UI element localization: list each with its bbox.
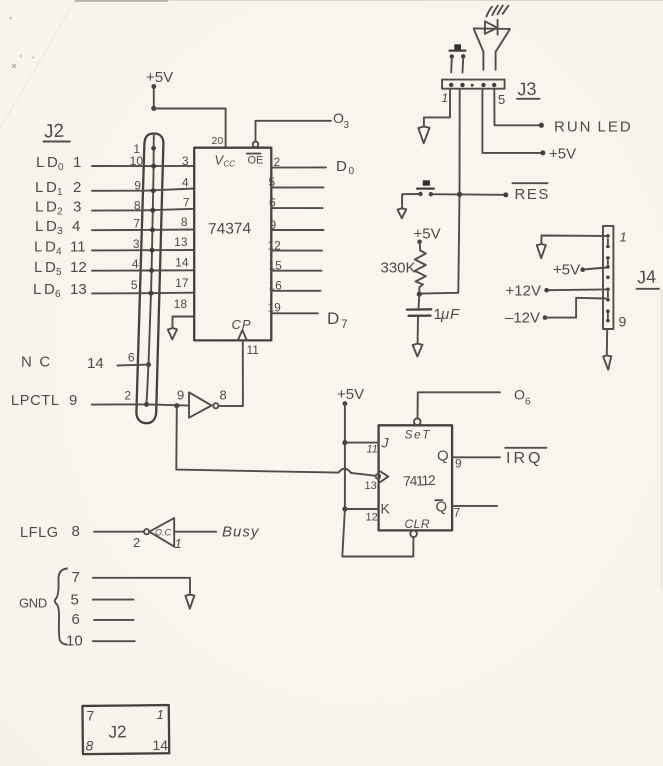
- svg-text:9: 9: [619, 314, 627, 330]
- svg-text:5: 5: [131, 278, 138, 292]
- svg-text:0: 0: [349, 166, 355, 177]
- svg-text:CC: CC: [224, 160, 236, 169]
- svg-text:14: 14: [153, 737, 169, 753]
- svg-text:9: 9: [134, 179, 141, 193]
- svg-text:NC: NC: [21, 354, 58, 371]
- svg-text:D: D: [45, 239, 56, 256]
- svg-text:J2: J2: [44, 121, 65, 143]
- svg-text:+5V: +5V: [414, 226, 441, 243]
- svg-text:10: 10: [66, 633, 83, 650]
- svg-text:3: 3: [344, 120, 350, 131]
- svg-text:Busy: Busy: [222, 524, 260, 541]
- svg-text:+5V: +5V: [549, 146, 576, 163]
- svg-text:7: 7: [72, 569, 80, 586]
- svg-text:330K: 330K: [381, 260, 416, 277]
- svg-text:8: 8: [134, 199, 141, 213]
- svg-text:D: D: [44, 281, 55, 298]
- svg-text:LED: LED: [598, 119, 633, 136]
- svg-text:D: D: [327, 309, 339, 328]
- svg-text:K: K: [381, 501, 391, 517]
- svg-text:4: 4: [132, 257, 139, 271]
- svg-text:D: D: [47, 154, 58, 171]
- svg-text:9: 9: [455, 457, 462, 471]
- svg-text:13: 13: [70, 281, 87, 298]
- svg-text:L: L: [35, 218, 43, 235]
- svg-text:RES: RES: [515, 186, 550, 203]
- svg-text:+12V: +12V: [506, 283, 541, 300]
- svg-text:7: 7: [87, 708, 95, 724]
- svg-text:7: 7: [183, 195, 190, 209]
- svg-text:20: 20: [212, 135, 224, 147]
- svg-text:IRQ: IRQ: [506, 450, 543, 467]
- svg-text:13: 13: [174, 235, 188, 249]
- svg-text:D: D: [46, 179, 57, 196]
- svg-text:12: 12: [70, 259, 87, 276]
- svg-text:7: 7: [341, 317, 348, 331]
- svg-text:F: F: [450, 306, 460, 323]
- svg-text:2: 2: [133, 535, 140, 550]
- svg-text:5: 5: [71, 592, 79, 609]
- svg-text:19: 19: [268, 301, 282, 315]
- svg-text:9: 9: [69, 392, 77, 409]
- svg-text:D: D: [45, 259, 56, 276]
- svg-text:11: 11: [247, 343, 260, 357]
- svg-text:14: 14: [175, 255, 189, 269]
- svg-text:16: 16: [269, 279, 283, 293]
- svg-text:D: D: [46, 199, 57, 216]
- svg-text:3: 3: [73, 199, 81, 216]
- svg-text:8: 8: [181, 215, 188, 229]
- svg-text:L: L: [36, 154, 44, 171]
- svg-text:10: 10: [130, 154, 144, 168]
- svg-text:15: 15: [269, 259, 283, 273]
- svg-text:2: 2: [57, 207, 63, 218]
- svg-text:CLR: CLR: [405, 517, 431, 531]
- svg-text:12: 12: [268, 239, 282, 253]
- svg-text:OE: OE: [248, 155, 264, 167]
- svg-text:–12V: –12V: [505, 310, 540, 327]
- svg-text:12: 12: [366, 512, 378, 524]
- svg-text:9: 9: [177, 388, 184, 403]
- svg-text:5: 5: [498, 92, 505, 107]
- svg-text:Q: Q: [437, 448, 449, 465]
- svg-text:L: L: [34, 259, 42, 276]
- svg-text:O.C: O.C: [155, 528, 172, 538]
- svg-text:2: 2: [73, 179, 81, 196]
- svg-text:LFLG: LFLG: [20, 525, 59, 541]
- svg-text:J: J: [381, 435, 390, 451]
- svg-text:11: 11: [70, 239, 86, 256]
- svg-text:2: 2: [124, 389, 131, 403]
- svg-text:1: 1: [157, 707, 164, 722]
- svg-text:18: 18: [174, 297, 188, 311]
- svg-text:11: 11: [367, 444, 378, 456]
- svg-text:J3: J3: [517, 79, 537, 100]
- svg-text:1: 1: [175, 536, 182, 551]
- svg-text:L: L: [33, 281, 41, 298]
- svg-text:1: 1: [620, 230, 627, 245]
- svg-text:L: L: [35, 199, 43, 216]
- svg-text:6: 6: [72, 611, 80, 628]
- svg-text:5: 5: [269, 175, 276, 189]
- svg-text:LPCTL: LPCTL: [11, 393, 60, 409]
- svg-text:D: D: [46, 218, 57, 235]
- svg-text:J2: J2: [108, 722, 127, 742]
- svg-text:+5V: +5V: [146, 69, 173, 86]
- svg-text:74112: 74112: [403, 472, 436, 489]
- svg-text:6: 6: [128, 351, 135, 365]
- svg-text:1: 1: [57, 187, 63, 198]
- svg-text:SeT: SeT: [405, 428, 432, 442]
- svg-text:8: 8: [72, 523, 80, 540]
- svg-text:13: 13: [365, 480, 377, 492]
- svg-text:3: 3: [182, 154, 189, 168]
- svg-text:2: 2: [274, 155, 281, 169]
- svg-text:4: 4: [56, 247, 62, 258]
- svg-text:74374: 74374: [208, 220, 252, 238]
- svg-text:6: 6: [55, 289, 61, 300]
- svg-text:O: O: [333, 110, 344, 126]
- svg-text:3: 3: [133, 237, 140, 251]
- svg-text:L: L: [34, 239, 42, 256]
- svg-text:D: D: [336, 158, 347, 175]
- svg-text:9: 9: [270, 218, 277, 232]
- svg-text:17: 17: [175, 276, 189, 290]
- svg-text:O: O: [514, 387, 525, 403]
- svg-text:J4: J4: [637, 267, 657, 288]
- svg-text:μ: μ: [440, 306, 449, 323]
- svg-text:RUN: RUN: [554, 119, 593, 136]
- svg-text:8: 8: [220, 388, 227, 403]
- svg-text:4: 4: [72, 218, 80, 235]
- svg-text:6: 6: [525, 397, 531, 408]
- svg-text:0: 0: [58, 162, 64, 173]
- svg-text:1: 1: [73, 154, 81, 171]
- svg-text:3: 3: [57, 226, 63, 237]
- svg-text:L: L: [35, 179, 43, 196]
- svg-text:1: 1: [442, 91, 449, 105]
- svg-text:+5V: +5V: [337, 386, 364, 403]
- svg-text:5: 5: [56, 267, 62, 278]
- svg-text:7: 7: [133, 217, 140, 231]
- svg-text:7: 7: [454, 506, 461, 520]
- svg-text:+5V: +5V: [553, 262, 580, 279]
- svg-text:8: 8: [86, 738, 94, 754]
- svg-text:14: 14: [87, 355, 104, 372]
- svg-text:GND: GND: [19, 596, 47, 611]
- svg-text:6: 6: [269, 196, 276, 210]
- svg-text:4: 4: [182, 176, 189, 190]
